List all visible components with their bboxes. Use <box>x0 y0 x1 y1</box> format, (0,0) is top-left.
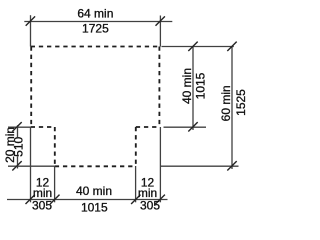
solid extension and dimension lines <box>7 15 239 202</box>
bottom extension line at x=136 <box>135 166 137 202</box>
20 min dimension line (upper segment) <box>17 125 19 137</box>
svg-text:305: 305 <box>140 198 160 212</box>
tick 20min bottom <box>12 161 21 170</box>
20 min dimension line (lower segment) <box>17 157 19 169</box>
svg-text:40 min: 40 min <box>180 68 194 104</box>
tick bottom dim x=136 <box>131 195 140 204</box>
svg-text:1015: 1015 <box>81 200 108 214</box>
stem left edge <box>54 127 56 166</box>
svg-text:305: 305 <box>32 198 52 212</box>
svg-text:40 min: 40 min <box>76 184 112 198</box>
tick top dim right <box>156 16 165 25</box>
svg-text:1725: 1725 <box>82 21 109 35</box>
bottom extension line at x=55 <box>54 166 56 202</box>
bottom extension line at x=30 <box>30 127 32 202</box>
top dimension line (64 min) <box>24 21 172 23</box>
left edge <box>30 47 32 128</box>
bottom dimension line <box>7 199 168 201</box>
lower-left horizontal extension <box>8 165 55 167</box>
dashed T-shaped outline <box>31 47 160 167</box>
60 min dimension line <box>231 47 233 170</box>
right arm bottom <box>136 126 160 128</box>
tick 60min top <box>227 42 236 51</box>
tick 40min bottom <box>188 122 197 131</box>
tick bottom dim x=55 <box>50 195 59 204</box>
stem bottom edge <box>55 165 136 167</box>
tick bottom dim x=160 <box>156 195 165 204</box>
mid-right horizontal extension <box>164 126 207 128</box>
svg-text:1015: 1015 <box>194 72 208 99</box>
svg-text:1525: 1525 <box>234 89 248 116</box>
tick bottom dim x=30 <box>26 195 35 204</box>
top-left extension line <box>30 15 32 46</box>
tick 40min top <box>188 42 197 51</box>
top-right extension line <box>159 16 161 47</box>
left arm bottom <box>31 126 55 128</box>
tick top dim left <box>26 16 35 25</box>
stem right edge <box>135 127 137 166</box>
upper-right horizontal extension <box>162 46 234 48</box>
top edge <box>31 46 160 48</box>
bottom extension line at x=160 <box>159 127 161 202</box>
lower-right horizontal extension <box>161 165 239 167</box>
svg-text:64 min: 64 min <box>77 7 113 21</box>
svg-text:510: 510 <box>12 136 26 156</box>
right edge <box>158 47 160 128</box>
svg-text:60 min: 60 min <box>219 85 233 121</box>
tick 20min top <box>12 122 21 131</box>
oblique tick marks <box>12 16 236 204</box>
40 min dimension line <box>192 47 194 131</box>
tick 60min bottom <box>227 161 236 170</box>
mid-left horizontal extension <box>8 126 31 128</box>
